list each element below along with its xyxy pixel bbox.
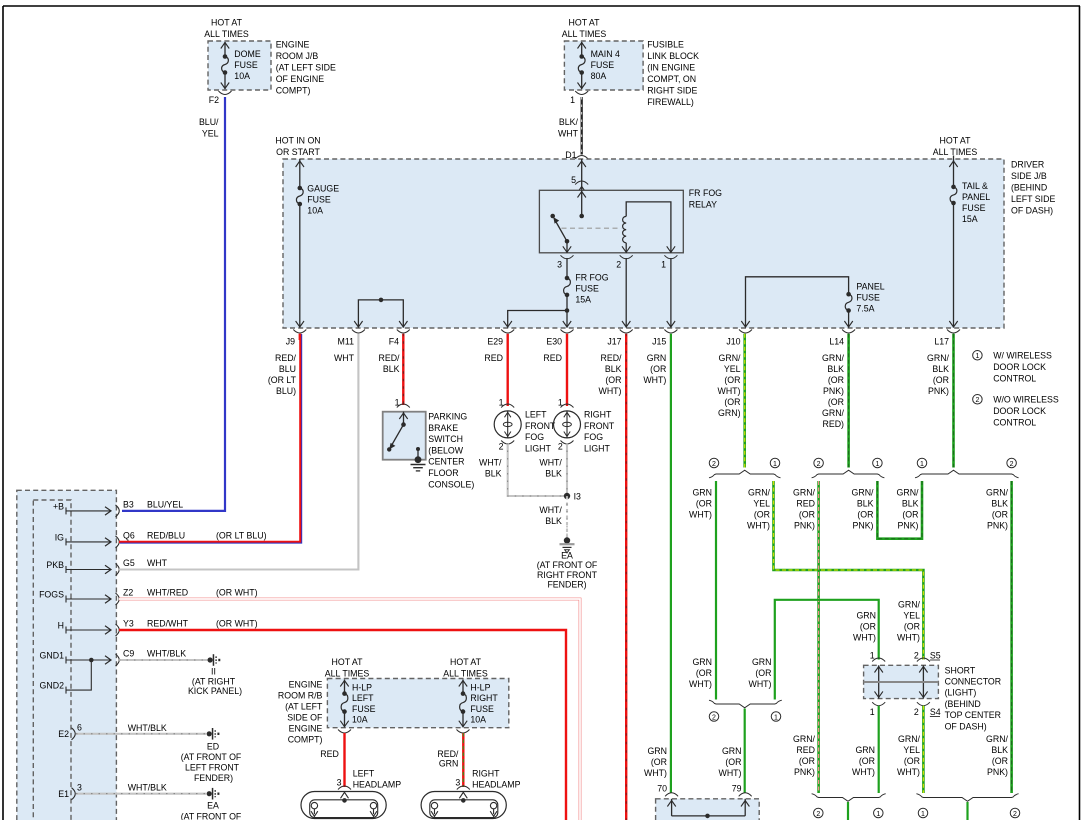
svg-text:(OR WHT): (OR WHT) xyxy=(216,588,258,598)
svg-text:(OR: (OR xyxy=(605,375,621,385)
svg-text:FOG: FOG xyxy=(584,432,603,442)
connector M11 xyxy=(352,330,365,334)
svg-text:FOG: FOG xyxy=(525,432,544,442)
svg-text:L14: L14 xyxy=(829,337,844,347)
svg-text:RED/: RED/ xyxy=(275,353,297,363)
relay FR FOG RELAY box xyxy=(539,190,683,253)
svg-text:(OR: (OR xyxy=(754,510,770,520)
splice brace under L14 xyxy=(812,470,885,478)
short connector internal pin 1 xyxy=(878,665,880,698)
relay coil top wire to pin 1 xyxy=(626,202,671,253)
svg-text:7.5A: 7.5A xyxy=(856,303,874,313)
svg-text:PARKING: PARKING xyxy=(428,412,467,422)
wire WHT/BLK left fog light to I3 xyxy=(508,443,565,496)
svg-text:H-LP: H-LP xyxy=(470,682,490,692)
headlamp body xyxy=(421,792,506,819)
connector L17 xyxy=(947,330,960,334)
svg-text:CONTROL: CONTROL xyxy=(993,418,1036,428)
svg-text:FUSE: FUSE xyxy=(962,203,986,213)
svg-text:1: 1 xyxy=(921,811,925,818)
fuse GAUGE FUSE 10A xyxy=(298,186,303,191)
svg-text:(OR: (OR xyxy=(696,668,712,678)
svg-text:GRN: GRN xyxy=(647,353,667,363)
junction I? fuse output split xyxy=(565,308,570,313)
svg-text:ALL TIMES: ALL TIMES xyxy=(443,669,488,679)
svg-text:(BELOW: (BELOW xyxy=(428,445,463,455)
wire E30 RED to right front fog light xyxy=(566,334,568,406)
svg-text:WHT): WHT) xyxy=(689,679,712,689)
connector relay pin 2 xyxy=(620,255,633,258)
svg-text:1: 1 xyxy=(870,707,875,717)
ground below parking brake switch xyxy=(411,464,426,466)
svg-text:RED: RED xyxy=(796,745,815,755)
svg-text:I3: I3 xyxy=(574,492,581,502)
svg-text:(OR: (OR xyxy=(724,397,740,407)
svg-text:3: 3 xyxy=(77,782,82,792)
lamp RIGHT FRONT FOG LIGHT xyxy=(554,411,581,438)
connector pin 1 xyxy=(575,91,588,95)
connector J10 xyxy=(739,330,752,334)
wire J10 GRN/YEL to splice brace xyxy=(743,334,746,468)
svg-text:(OR: (OR xyxy=(650,364,666,374)
svg-text:2: 2 xyxy=(817,461,821,468)
splice brace under L17 xyxy=(915,470,1019,478)
svg-text:(AT FRONT OF: (AT FRONT OF xyxy=(181,811,242,820)
fuse FR FOG FUSE 15A xyxy=(565,276,570,281)
svg-text:J15: J15 xyxy=(652,337,666,347)
svg-text:FRONT: FRONT xyxy=(525,421,556,431)
svg-text:15A: 15A xyxy=(575,295,591,305)
svg-text:PNK): PNK) xyxy=(987,521,1008,531)
wire fuse output to E30 xyxy=(566,295,568,328)
svg-text:BLK: BLK xyxy=(991,499,1008,509)
svg-text:F4: F4 xyxy=(389,337,399,347)
svg-text:BLK: BLK xyxy=(932,364,949,374)
svg-text:WHT): WHT) xyxy=(852,767,875,777)
svg-text:(OR: (OR xyxy=(799,756,815,766)
svg-text:MAIN 4: MAIN 4 xyxy=(591,49,620,59)
wire Q6 RED/BLU from unit to J9 xyxy=(119,334,300,542)
svg-text:2: 2 xyxy=(712,461,716,468)
svg-text:DOOR LOCK: DOOR LOCK xyxy=(993,362,1046,372)
svg-text:PNK): PNK) xyxy=(928,386,949,396)
wire GRN/YEL branch J10-1 to short connector pin S5-2 xyxy=(774,481,924,660)
svg-text:ROOM J/B: ROOM J/B xyxy=(276,51,319,61)
svg-text:WHT/: WHT/ xyxy=(539,505,562,515)
svg-text:+B: +B xyxy=(53,501,64,511)
parking brake switch arm xyxy=(391,425,403,446)
svg-text:1: 1 xyxy=(876,811,880,818)
svg-text:COMPT): COMPT) xyxy=(288,735,323,745)
svg-text:Q6: Q6 xyxy=(123,531,135,541)
wire RED to left headlamp xyxy=(343,733,345,787)
svg-text:RIGHT: RIGHT xyxy=(472,769,500,779)
svg-text:(OR: (OR xyxy=(860,622,876,632)
svg-text:(AT FRONT OF: (AT FRONT OF xyxy=(537,560,598,570)
svg-text:SWITCH: SWITCH xyxy=(428,434,463,444)
svg-text:YEL: YEL xyxy=(202,129,219,139)
ground II (at right kick panel) xyxy=(208,657,213,662)
svg-text:GRN/: GRN/ xyxy=(719,353,742,363)
connector relay pin 3 xyxy=(561,255,574,258)
svg-text:HOT AT: HOT AT xyxy=(332,657,364,667)
wire BLK/WHT from main fuse to D1 xyxy=(581,97,583,155)
svg-text:C9: C9 xyxy=(123,649,134,659)
wire feed into H-LP left fuse xyxy=(344,680,346,694)
svg-text:BLK: BLK xyxy=(902,499,919,509)
svg-text:1: 1 xyxy=(875,461,879,468)
connector F4 xyxy=(397,330,410,334)
wire gauge fuse feed xyxy=(299,159,301,188)
svg-text:LEFT: LEFT xyxy=(352,693,374,703)
svg-text:GAUGE: GAUGE xyxy=(307,184,339,194)
svg-text:FRONT: FRONT xyxy=(584,421,615,431)
svg-text:1: 1 xyxy=(774,714,778,721)
svg-text:LIGHT: LIGHT xyxy=(525,443,552,453)
svg-text:RED/BLU: RED/BLU xyxy=(147,531,185,541)
svg-text:PANEL: PANEL xyxy=(962,192,990,202)
svg-text:RED/: RED/ xyxy=(600,353,622,363)
headlamp low beam bulb xyxy=(431,802,437,808)
svg-text:WHT/BLK: WHT/BLK xyxy=(147,649,186,659)
splice brace under J10 xyxy=(709,470,781,478)
svg-text:(OR: (OR xyxy=(724,375,740,385)
svg-text:FUSE: FUSE xyxy=(575,284,599,294)
svg-text:ENGINE: ENGINE xyxy=(276,40,310,50)
svg-text:HOT AT: HOT AT xyxy=(569,18,601,28)
svg-text:H-LP: H-LP xyxy=(352,682,372,692)
note 2: without wireless door lock control xyxy=(973,395,983,405)
svg-text:J9: J9 xyxy=(286,337,295,347)
junction block FUSIBLE LINK BLOCK box xyxy=(564,41,643,90)
svg-text:GRN/: GRN/ xyxy=(897,488,920,498)
merged wire down (right pair) xyxy=(966,802,968,820)
fuse H-LP RIGHT FUSE 10A xyxy=(461,691,466,696)
svg-text:GRN: GRN xyxy=(855,745,875,755)
svg-text:BLK: BLK xyxy=(605,364,622,374)
wire relay pin1 to J15 xyxy=(670,258,672,328)
svg-text:(OR: (OR xyxy=(799,510,815,520)
wire GRN/BLK branch L17-2 down to bottom brace xyxy=(1010,481,1013,793)
svg-text:RED/: RED/ xyxy=(378,353,400,363)
wire GRN/YEL S4 pin2 to bottom brace xyxy=(922,706,925,793)
bottom merge brace GRN/RED + GRN xyxy=(812,794,886,802)
svg-text:(OR: (OR xyxy=(725,757,741,767)
wire tail fuse feed xyxy=(953,156,955,187)
svg-text:(OR: (OR xyxy=(857,510,873,520)
svg-text:(OR: (OR xyxy=(904,622,920,632)
svg-text:EA: EA xyxy=(207,801,219,811)
svg-text:2: 2 xyxy=(1013,811,1017,818)
svg-text:FLOOR: FLOOR xyxy=(428,468,458,478)
wire WHT/BLK right fog light to I3 xyxy=(566,443,568,496)
svg-text:YEL: YEL xyxy=(753,499,770,509)
wire GRN S4 pin1 to bottom brace xyxy=(878,706,880,793)
connector under left fuse xyxy=(338,730,351,734)
svg-text:S4: S4 xyxy=(930,707,941,717)
svg-text:GRN/: GRN/ xyxy=(822,353,845,363)
svg-text:GRN: GRN xyxy=(647,746,667,756)
svg-text:BLU): BLU) xyxy=(276,386,296,396)
svg-text:WHT): WHT) xyxy=(719,768,742,778)
svg-text:CONSOLE): CONSOLE) xyxy=(428,479,474,489)
svg-text:15A: 15A xyxy=(962,214,978,224)
internal link 70-79 xyxy=(672,815,746,817)
svg-text:1: 1 xyxy=(570,95,575,105)
svg-text:79: 79 xyxy=(732,784,742,794)
svg-text:GRN/: GRN/ xyxy=(898,600,921,610)
svg-text:COMPT): COMPT) xyxy=(276,86,311,96)
svg-text:ALL TIMES: ALL TIMES xyxy=(204,29,249,39)
svg-text:WHT/: WHT/ xyxy=(539,458,562,468)
svg-text:BLK: BLK xyxy=(485,469,502,479)
svg-text:GRN: GRN xyxy=(692,488,712,498)
junction block ENGINE ROOM J/B box xyxy=(208,41,271,90)
svg-text:WHT): WHT) xyxy=(747,521,770,531)
svg-text:10A: 10A xyxy=(470,715,486,725)
fuse H-LP LEFT FUSE 10A xyxy=(342,691,347,696)
connector pin 2 of left fog light xyxy=(501,441,514,445)
svg-text:IG: IG xyxy=(55,532,64,542)
svg-text:1: 1 xyxy=(920,461,924,468)
wire Z2 WHT/RED from unit to fog switch feed xyxy=(119,599,580,820)
headlamp low beam bulb xyxy=(311,802,317,808)
wire GRN jog from lower brace branch to short connector pin S5-1 xyxy=(775,600,879,700)
svg-text:PKB: PKB xyxy=(46,560,64,570)
wire L14 GRN/BLK to splice brace xyxy=(847,334,850,468)
svg-text:BLK: BLK xyxy=(857,499,874,509)
relay switch fixed contact xyxy=(550,214,555,219)
svg-text:OF DASH): OF DASH) xyxy=(1011,206,1053,216)
svg-text:10A: 10A xyxy=(352,715,368,725)
svg-text:E1: E1 xyxy=(58,789,69,799)
svg-text:(AT RIGHT: (AT RIGHT xyxy=(192,677,236,687)
wire M11 stub xyxy=(357,333,359,335)
svg-text:(OR: (OR xyxy=(933,375,949,385)
wire J15 GRN to pin 70 xyxy=(670,334,672,793)
svg-text:(OR: (OR xyxy=(904,756,920,766)
svg-text:WHT): WHT) xyxy=(897,767,920,777)
pin 70 internal wire xyxy=(671,799,673,816)
svg-text:3: 3 xyxy=(337,778,342,788)
svg-text:FUSE: FUSE xyxy=(591,60,615,70)
svg-text:SHORT: SHORT xyxy=(945,665,976,675)
junction on M11-F4 jumper xyxy=(379,298,384,303)
svg-text:PNK): PNK) xyxy=(794,521,815,531)
svg-text:(AT LEFT: (AT LEFT xyxy=(285,702,323,712)
connector E30 xyxy=(561,330,574,334)
svg-text:TAIL &: TAIL & xyxy=(962,181,988,191)
parking brake switch ground contact xyxy=(416,447,420,451)
bottom merge brace GRN/YEL + GRN/BLK xyxy=(916,794,1018,802)
svg-text:OF ENGINE: OF ENGINE xyxy=(276,74,325,84)
svg-text:RED: RED xyxy=(796,499,815,509)
svg-text:W/O WIRELESS: W/O WIRELESS xyxy=(993,395,1059,405)
wire Y3 RED/WHT from unit xyxy=(119,630,566,820)
svg-text:GRN/: GRN/ xyxy=(927,353,950,363)
svg-text:RIGHT SIDE: RIGHT SIDE xyxy=(647,86,697,96)
svg-text:ALL TIMES: ALL TIMES xyxy=(562,29,607,39)
relay mechanical link (dashed) xyxy=(562,227,622,229)
svg-text:ED: ED xyxy=(207,742,219,752)
svg-text:WHT/BLK: WHT/BLK xyxy=(128,783,167,793)
svg-text:GRN: GRN xyxy=(722,746,742,756)
svg-text:HEADLAMP: HEADLAMP xyxy=(472,780,521,790)
svg-text:YEL: YEL xyxy=(903,745,920,755)
svg-text:KICK PANEL): KICK PANEL) xyxy=(188,686,242,696)
svg-text:H: H xyxy=(58,621,64,631)
svg-text:(OR LT: (OR LT xyxy=(268,375,297,385)
svg-text:GRN: GRN xyxy=(439,759,459,769)
svg-text:BLK: BLK xyxy=(545,469,562,479)
svg-text:II: II xyxy=(211,667,216,677)
svg-text:RIGHT FRONT: RIGHT FRONT xyxy=(537,570,598,580)
svg-text:BRAKE: BRAKE xyxy=(428,423,458,433)
svg-text:GRN): GRN) xyxy=(718,408,741,418)
svg-text:(OR: (OR xyxy=(755,668,771,678)
svg-text:(OR LT BLU): (OR LT BLU) xyxy=(216,531,267,541)
svg-text:(IN ENGINE: (IN ENGINE xyxy=(647,63,695,73)
svg-text:CONNECTOR: CONNECTOR xyxy=(945,677,1002,687)
svg-text:CENTER: CENTER xyxy=(428,457,464,467)
wire J17 RED/BLK to bottom of page xyxy=(625,334,627,820)
headlamp high beam bulb xyxy=(490,802,496,808)
svg-text:PANEL: PANEL xyxy=(856,281,884,291)
svg-text:1: 1 xyxy=(773,461,777,468)
wire C9 WHT/BLK from unit to ground II xyxy=(119,659,208,661)
connector F2 xyxy=(219,91,232,95)
svg-text:BLU: BLU xyxy=(279,364,296,374)
wire panel fuse bus xyxy=(746,277,849,328)
svg-text:(OR: (OR xyxy=(696,499,712,509)
svg-text:FUSE: FUSE xyxy=(470,704,494,714)
svg-text:2: 2 xyxy=(975,397,979,404)
svg-text:2: 2 xyxy=(712,714,716,721)
svg-text:(OR: (OR xyxy=(651,757,667,767)
svg-text:WHT): WHT) xyxy=(718,386,741,396)
svg-text:LEFT SIDE: LEFT SIDE xyxy=(1011,194,1055,204)
wire GRN/RED branch L14-2 down to bottom brace xyxy=(817,481,820,793)
svg-text:6: 6 xyxy=(77,723,82,733)
relay switch to pin 3 xyxy=(566,241,568,253)
svg-text:WHT): WHT) xyxy=(749,679,772,689)
svg-text:GND2: GND2 xyxy=(40,681,65,691)
svg-text:ALL TIMES: ALL TIMES xyxy=(325,669,370,679)
svg-text:LEFT: LEFT xyxy=(353,769,375,779)
wire GRN/BLK U link between L14-1 and L17-1 branches xyxy=(877,481,922,539)
page frame border xyxy=(3,5,1080,7)
svg-text:GRN/: GRN/ xyxy=(793,488,816,498)
fuse PANEL FUSE 7.5A xyxy=(846,292,851,297)
fuse TAIL & PANEL FUSE 15A xyxy=(951,185,956,190)
svg-text:SIDE J/B: SIDE J/B xyxy=(1011,171,1047,181)
control unit outer box xyxy=(17,490,117,820)
fuse DOME FUSE 10A xyxy=(223,54,228,59)
svg-text:FOGS: FOGS xyxy=(39,590,64,600)
svg-text:WHT): WHT) xyxy=(897,633,920,643)
wire feed into H-LP right fuse xyxy=(462,680,464,694)
svg-text:WHT): WHT) xyxy=(643,375,666,385)
svg-text:WHT: WHT xyxy=(334,353,355,363)
svg-text:EA: EA xyxy=(561,551,573,561)
wire feed into main 4 fuse xyxy=(581,42,583,56)
wire tail fuse to L17 xyxy=(953,203,955,328)
svg-text:(OR: (OR xyxy=(902,510,918,520)
svg-text:RIGHT: RIGHT xyxy=(470,693,498,703)
wire branch to E29 xyxy=(508,311,567,328)
connector under right fuse xyxy=(457,730,470,734)
svg-text:ENGINE: ENGINE xyxy=(289,724,323,734)
svg-text:L17: L17 xyxy=(934,337,949,347)
svg-text:OF DASH): OF DASH) xyxy=(945,721,987,731)
svg-text:FENDER): FENDER) xyxy=(547,580,586,590)
svg-text:FENDER): FENDER) xyxy=(194,773,233,783)
junction block at pins 70/79 (bottom, cut off) xyxy=(656,799,760,820)
svg-text:3: 3 xyxy=(557,260,562,270)
junction on link 70-79 xyxy=(705,814,710,819)
svg-text:Y3: Y3 xyxy=(123,619,134,629)
svg-text:HOT AT: HOT AT xyxy=(211,18,243,28)
svg-text:PNK): PNK) xyxy=(794,767,815,777)
svg-text:70: 70 xyxy=(657,784,667,794)
svg-text:3: 3 xyxy=(455,778,460,788)
svg-text:BLK: BLK xyxy=(545,516,562,526)
svg-text:GRN/: GRN/ xyxy=(986,734,1009,744)
wire F4 RED/BLK to parking brake switch xyxy=(402,334,404,405)
svg-text:DOOR LOCK: DOOR LOCK xyxy=(993,406,1046,416)
svg-text:PNK): PNK) xyxy=(987,767,1008,777)
wire GRN branch J10-2 down to lower brace xyxy=(715,481,717,700)
svg-text:(OR: (OR xyxy=(828,397,844,407)
svg-text:2: 2 xyxy=(816,811,820,818)
svg-text:RIGHT: RIGHT xyxy=(584,410,612,420)
svg-text:GRN/: GRN/ xyxy=(898,734,921,744)
svg-text:1: 1 xyxy=(661,260,666,270)
note 1: with wireless door lock control xyxy=(973,351,983,361)
svg-text:E2: E2 xyxy=(58,729,69,739)
svg-text:(LIGHT): (LIGHT) xyxy=(945,688,977,698)
svg-text:HEADLAMP: HEADLAMP xyxy=(353,780,402,790)
svg-text:TOP CENTER: TOP CENTER xyxy=(945,710,1001,720)
ground EA (at front of right front fender) xyxy=(564,537,570,543)
splice brace merging to pin 79 xyxy=(709,700,782,708)
parking brake switch internal contact xyxy=(403,412,405,425)
svg-text:(OR: (OR xyxy=(992,510,1008,520)
svg-text:2: 2 xyxy=(616,260,621,270)
svg-text:HOT AT: HOT AT xyxy=(450,657,482,667)
svg-text:5: 5 xyxy=(571,175,576,185)
ground ED (at front of left front fender) xyxy=(207,731,212,736)
svg-text:2: 2 xyxy=(499,442,504,452)
wire relay pin2 to J17 xyxy=(625,258,627,328)
svg-text:GRN/: GRN/ xyxy=(852,488,875,498)
wire G5 WHT from unit to M11 xyxy=(119,334,358,570)
junction GND1/GND2 xyxy=(89,658,94,663)
svg-text:J17: J17 xyxy=(607,337,621,347)
svg-text:(AT LEFT SIDE: (AT LEFT SIDE xyxy=(276,63,336,73)
svg-text:BLK: BLK xyxy=(827,364,844,374)
wire J9 stub xyxy=(299,334,301,340)
control unit inner box xyxy=(33,500,71,820)
wire BLU/YEL from F2 to +B xyxy=(122,97,225,511)
svg-text:FR FOG: FR FOG xyxy=(575,273,608,283)
svg-text:WHT/BLK: WHT/BLK xyxy=(128,723,167,733)
svg-text:WHT: WHT xyxy=(558,129,579,139)
connector L14 xyxy=(842,330,855,334)
connector relay pin 1 xyxy=(664,255,677,258)
svg-text:PNK): PNK) xyxy=(852,521,873,531)
svg-text:E30: E30 xyxy=(546,337,562,347)
